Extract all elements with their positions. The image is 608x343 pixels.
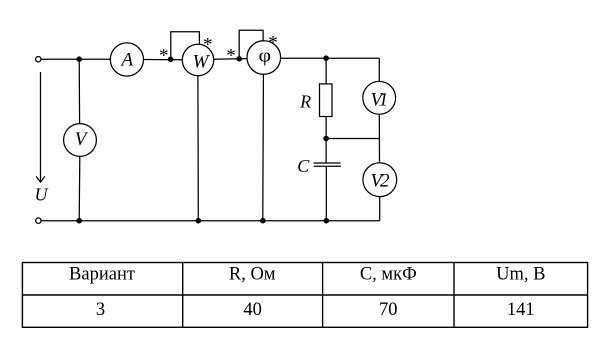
- svg-text:U: U: [35, 185, 49, 205]
- node junction top of V branch: [76, 56, 82, 62]
- wire W voltage bracket: [171, 32, 200, 60]
- node junction W current coil: [168, 57, 174, 63]
- wire R to C: [325, 117, 327, 164]
- wire down to R: [325, 58, 327, 84]
- wire A to W: [144, 59, 183, 61]
- wire V branch bottom: [78, 156, 81, 220]
- svg-text:A: A: [119, 50, 133, 71]
- phase meter phi: [247, 41, 281, 75]
- svg-text:70: 70: [379, 300, 398, 320]
- wire phi voltage bracket: [239, 30, 263, 59]
- svg-text:C: C: [297, 156, 310, 176]
- wire phi to load: [281, 57, 380, 59]
- wire W to phi: [214, 58, 247, 61]
- terminal bottom-left: [36, 218, 41, 223]
- svg-text:*: *: [226, 46, 236, 67]
- svg-text:R, Ом: R, Ом: [229, 264, 276, 284]
- node junction phi voltage: [236, 56, 242, 62]
- node bottom phi branch: [260, 218, 266, 224]
- voltmeter V1: [363, 81, 396, 114]
- svg-text:Вариант: Вариант: [69, 264, 135, 284]
- node bottom C branch: [324, 218, 330, 224]
- svg-text:Um, В: Um, В: [496, 264, 545, 284]
- wire top right corner down to V1: [378, 58, 380, 81]
- node bottom W branch: [196, 218, 202, 224]
- wire top: terminal to ammeter: [41, 58, 110, 60]
- svg-text:3: 3: [96, 300, 105, 320]
- svg-text:V: V: [75, 129, 89, 150]
- wire connector RC junction to V1/V2: [326, 138, 379, 140]
- node junction between R and C: [323, 136, 329, 142]
- resistor R: [299, 84, 332, 117]
- svg-text:R: R: [299, 92, 311, 112]
- voltmeter V2: [363, 163, 397, 197]
- voltmeter V: [64, 124, 97, 157]
- svg-text:V1: V1: [371, 90, 389, 111]
- wire V1 to V2: [378, 114, 380, 163]
- wire bottom: [41, 220, 380, 222]
- svg-text:40: 40: [243, 300, 262, 320]
- svg-text:141: 141: [507, 300, 535, 320]
- wattmeter W: [182, 44, 213, 75]
- ammeter A: [110, 43, 143, 76]
- wire V2 to bottom: [379, 197, 381, 221]
- wire phi branch down: [262, 74, 265, 220]
- table frame: [22, 263, 587, 328]
- arrow U source: [36, 72, 45, 182]
- svg-text:V2: V2: [371, 171, 391, 192]
- svg-text:*: *: [159, 45, 169, 66]
- svg-text:*: *: [203, 34, 213, 55]
- capacitor C: [297, 156, 341, 176]
- wire C to bottom: [325, 166, 327, 220]
- svg-text:*: *: [268, 32, 278, 53]
- node bottom V branch: [76, 218, 82, 224]
- terminal top-left: [36, 57, 41, 62]
- svg-text:С, мкФ: С, мкФ: [360, 264, 417, 284]
- wire W branch down: [197, 76, 199, 221]
- node junction R branch top: [323, 55, 329, 61]
- wire V branch top: [78, 59, 80, 123]
